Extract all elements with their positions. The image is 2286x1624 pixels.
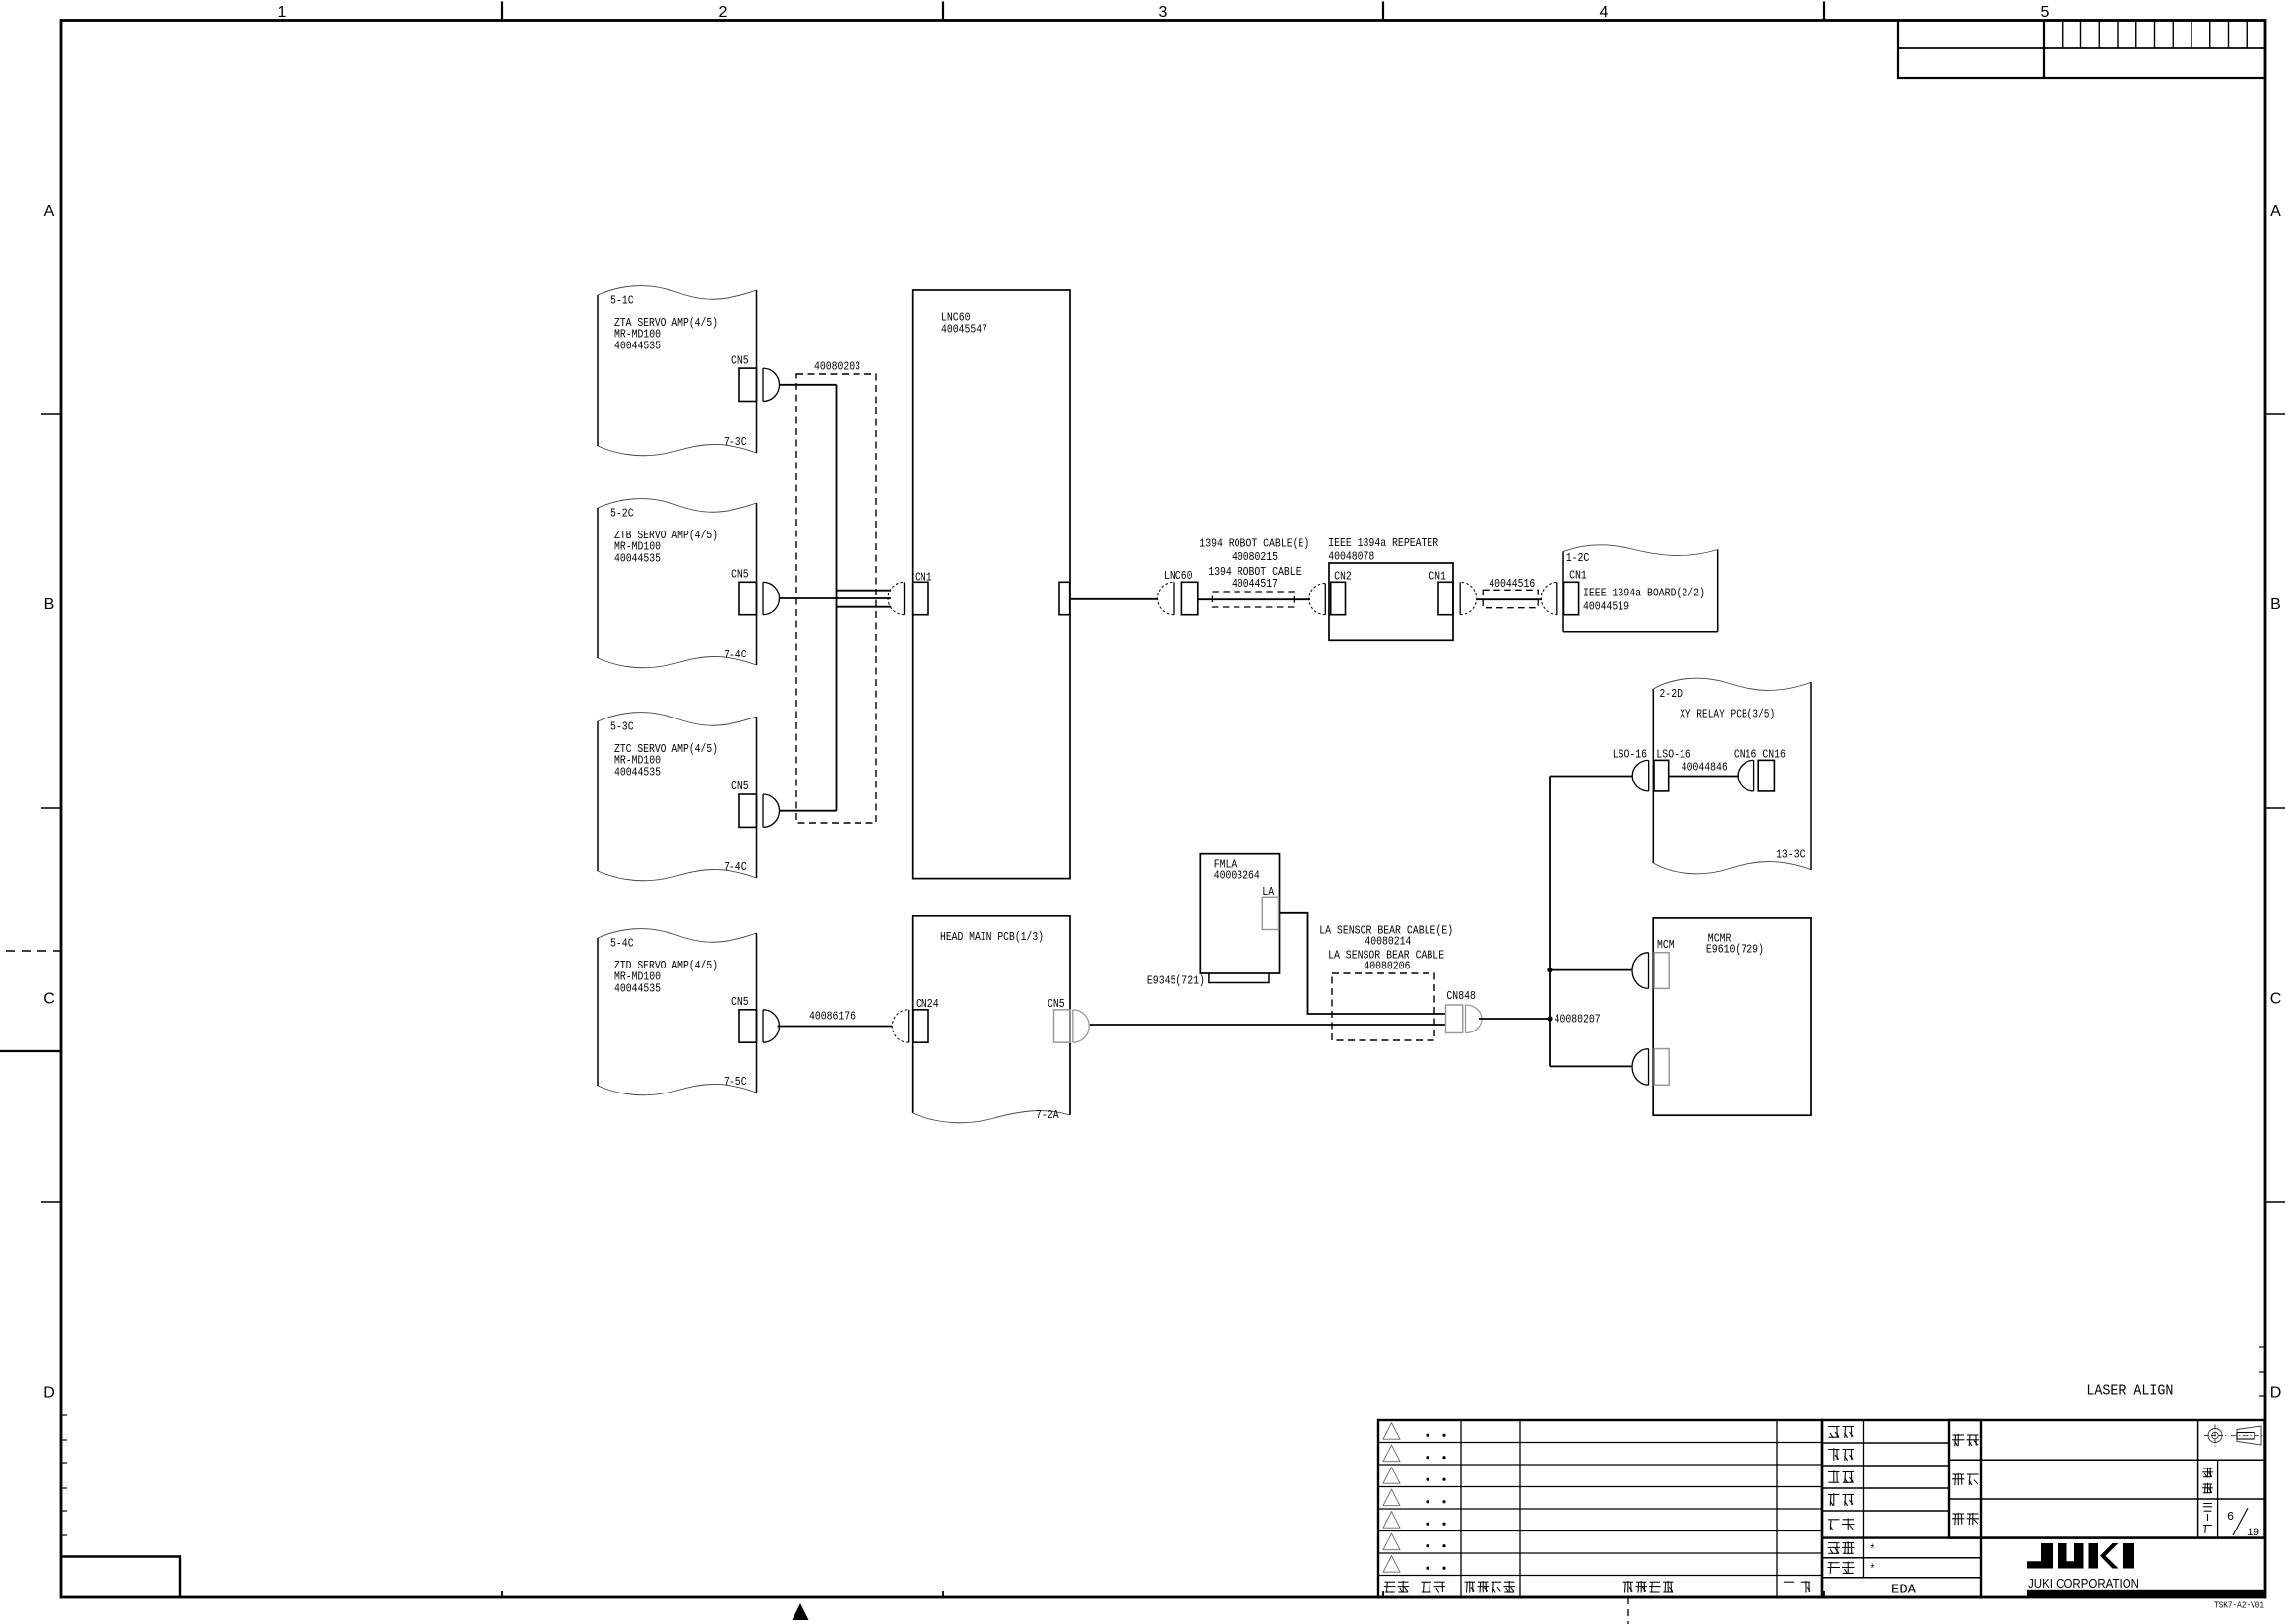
svg-text:CN16 CN16: CN16 CN16 — [1734, 747, 1786, 761]
bottom dashed centerline — [1627, 1597, 1629, 1624]
revision strip cell line 5 — [2135, 21, 2137, 49]
svg-text:40080215: 40080215 — [1232, 550, 1278, 564]
connector 40044516 socket — [1541, 582, 1557, 614]
approval row line 1 — [1822, 1442, 1949, 1444]
JUKI logo cell left edge — [1980, 1538, 1982, 1597]
approval row line 3 — [1822, 1487, 1949, 1489]
revision strip cell line 11 — [2246, 21, 2248, 49]
svg-text:7-4C: 7-4C — [724, 860, 747, 874]
junction dot upper — [1547, 968, 1552, 972]
svg-text:IEEE 1394a REPEATER: IEEE 1394a REPEATER — [1328, 536, 1438, 550]
wire LNC60 to cable plug — [1070, 598, 1158, 600]
svg-text:40003264: 40003264 — [1214, 869, 1260, 883]
IEEE 1394a repeater box — [1329, 563, 1453, 640]
svg-text:LSO-16: LSO-16 — [1613, 747, 1647, 761]
servo amp block 5-2C torn outline — [598, 499, 757, 513]
wire head CN5 to CN848 — [1090, 1024, 1446, 1026]
svg-text:CN5: CN5 — [731, 353, 749, 367]
approval label col divider — [1863, 1420, 1865, 1578]
svg-text:*: * — [1869, 1542, 1876, 1557]
svg-text:40044535: 40044535 — [614, 340, 661, 353]
zone tick right y821 — [2265, 807, 2285, 809]
wire LA sensor — [1280, 913, 1446, 1014]
svg-text:MCM: MCM — [1657, 938, 1675, 952]
revision strip cell line 10 — [2228, 21, 2230, 49]
svg-text:A: A — [44, 203, 55, 219]
connector CN1 rect (1394a board) — [1564, 582, 1579, 614]
connector 1394 cable socket at LNC60 — [1157, 582, 1174, 614]
label 保管 — [1828, 1541, 1855, 1554]
projection symbol cone — [2231, 1426, 2263, 1445]
revision row line 6 — [1378, 1552, 1822, 1554]
revision date dots row 1 — [1426, 1434, 1429, 1437]
cable 40080206 dashed box — [1332, 973, 1434, 1040]
svg-text:40080214: 40080214 — [1365, 934, 1411, 948]
part row line 1 — [1949, 1459, 2265, 1461]
svg-text:5-1C: 5-1C — [610, 294, 634, 308]
svg-text:7-3C: 7-3C — [724, 435, 747, 449]
header henkou-bangou — [1465, 1581, 1516, 1593]
connector CN5 plug (box 3) — [763, 794, 780, 827]
page slash — [2233, 1508, 2248, 1535]
svg-text:40080203: 40080203 — [814, 360, 860, 374]
svg-text:E9610(729): E9610(729) — [1706, 943, 1764, 957]
svg-text:40086176: 40086176 — [809, 1010, 856, 1024]
svg-text:4: 4 — [1600, 4, 1609, 21]
revision date dots row 2 — [1426, 1456, 1429, 1459]
revision strip outer — [1898, 21, 2265, 79]
approval row line 2 — [1822, 1465, 1949, 1467]
solid mark outside left frame — [0, 1050, 61, 1052]
wire 40044516 — [1477, 598, 1543, 600]
connector CN1 socket (LNC60) — [888, 582, 905, 614]
ruler tick right y1394 — [2259, 1371, 2265, 1373]
svg-text:40044519: 40044519 — [1583, 600, 1629, 614]
connector CN16 socket — [1738, 760, 1753, 791]
connector CN2 rect — [1331, 582, 1346, 614]
revision strip row divider — [1898, 47, 2265, 49]
label shakudo vertical — [2202, 1468, 2213, 1493]
cable 40044517 dashed box — [1212, 592, 1294, 607]
revision strip cell line 1 — [2062, 21, 2064, 49]
connector CN5 rect (box 2) — [739, 582, 757, 614]
label hin-ban — [1952, 1473, 1979, 1485]
wire 40086176 — [778, 1026, 892, 1028]
connector CN5 rect (head right, unused) — [1054, 1010, 1071, 1042]
connector CN5 plug (box 4) — [763, 1010, 779, 1042]
wire CN5-B to CN1 mid — [780, 597, 891, 599]
svg-text:CN2: CN2 — [1334, 569, 1352, 583]
wire bus to CN1 bottom — [837, 606, 892, 608]
column tick top 2 — [942, 2, 944, 21]
svg-text:40080206: 40080206 — [1364, 960, 1410, 973]
wire 40044846 — [1669, 776, 1739, 778]
connector robot cable socket at repeater — [1309, 584, 1326, 615]
LNC60 board box — [913, 290, 1070, 879]
HEAD MAIN PCB bottom torn edge — [913, 1111, 1070, 1123]
connector CN5 rect (box 1) — [739, 368, 757, 401]
svg-text:LSO-16: LSO-16 — [1656, 747, 1690, 761]
connector CN24 socket — [892, 1010, 908, 1042]
ruler tick left y1535 — [61, 1510, 67, 1512]
projection symbol circle — [2204, 1425, 2226, 1447]
svg-text:5-3C: 5-3C — [610, 720, 634, 734]
HEAD MAIN PCB box outline — [913, 916, 1070, 1115]
svg-text:CN5: CN5 — [731, 995, 749, 1009]
svg-text:40044535: 40044535 — [614, 552, 661, 566]
connector LSO-16 socket — [1632, 760, 1648, 791]
revision date dots row 4 — [1426, 1500, 1429, 1503]
svg-text:1-2C: 1-2C — [1566, 551, 1590, 565]
revision strip cell line 9 — [2209, 21, 2211, 49]
approval row line 4 — [1822, 1510, 1949, 1512]
revision strip cell line 8 — [2191, 21, 2192, 49]
servo amp block 5-1C torn outline — [598, 286, 757, 300]
wire CN5-C to bus — [780, 810, 837, 812]
ruler tick left y1438 — [61, 1414, 67, 1416]
wire bus to MCM upper — [1550, 969, 1632, 971]
revision col divider 3 — [1776, 1420, 1778, 1597]
connector cable plug after repeater — [1460, 582, 1477, 614]
revision triangle row 1 — [1383, 1423, 1400, 1440]
JUKI black bar — [2027, 1590, 2265, 1597]
revision date dots row 7 — [1426, 1567, 1429, 1570]
ruler tick left y1560 — [61, 1534, 67, 1536]
revision triangle row 6 — [1383, 1533, 1400, 1550]
wire right bus vertical — [1549, 777, 1551, 1067]
svg-text:EDA: EDA — [1891, 1583, 1917, 1596]
svg-text:5: 5 — [2041, 4, 2050, 21]
ruler tick right y1369 — [2259, 1346, 2265, 1348]
approval value col edge — [1948, 1420, 1950, 1538]
svg-text:CN848: CN848 — [1446, 989, 1476, 1003]
scale col divider — [2197, 1420, 2199, 1538]
connector CN5 rect (box 3) — [739, 794, 757, 827]
wire bus to LSO-16 — [1550, 776, 1632, 778]
svg-text:TSK7-A2-V01: TSK7-A2-V01 — [2214, 1600, 2264, 1611]
part row line 2 — [1949, 1498, 2265, 1500]
connector LSO-16 rect — [1654, 760, 1669, 791]
svg-text:CN24: CN24 — [916, 997, 939, 1011]
ruler tick right y1418 — [2259, 1395, 2265, 1397]
svg-text:40044516: 40044516 — [1489, 577, 1535, 591]
ruler tick left y1463 — [61, 1439, 67, 1441]
svg-text:6: 6 — [2227, 1510, 2234, 1524]
wire bus to MCM lower — [1550, 1065, 1632, 1067]
column tick top 3 — [1382, 2, 1384, 21]
scale value divider — [2217, 1460, 2219, 1537]
cable 40080203 dashed box — [796, 374, 876, 823]
bottom-left reference box — [61, 1557, 180, 1598]
JUKI logo — [2027, 1543, 2134, 1569]
svg-text:*: * — [1869, 1562, 1876, 1577]
revision strip cell line 6 — [2154, 21, 2156, 49]
revision triangle row 2 — [1383, 1445, 1400, 1462]
column tick bottom 4 — [1823, 1591, 1825, 1596]
connector CN5 plug (box 1) — [763, 368, 780, 401]
revision date dots row 3 — [1426, 1478, 1429, 1481]
XY RELAY PCB torn box — [1653, 678, 1811, 874]
column tick top 4 — [1823, 2, 1825, 21]
svg-text:LNC60: LNC60 — [1164, 569, 1193, 583]
svg-text:3: 3 — [1159, 4, 1168, 21]
revision triangle row 7 — [1383, 1556, 1400, 1573]
connector MCM socket lower — [1632, 1049, 1648, 1086]
approval row line 5 — [1822, 1537, 1981, 1539]
revision row line 4 — [1378, 1508, 1822, 1510]
connector CN848 rect (unused) — [1446, 1005, 1463, 1033]
svg-text:CN5: CN5 — [731, 780, 749, 793]
revision col divider 1 — [1460, 1420, 1462, 1597]
svg-text:CN5: CN5 — [731, 568, 749, 582]
column tick bottom 1 — [501, 1591, 503, 1596]
revision date dots row 6 — [1426, 1544, 1429, 1547]
svg-text:7-2A: 7-2A — [1036, 1108, 1059, 1122]
title block revision table outer — [1378, 1420, 1822, 1597]
svg-text:CN5: CN5 — [1048, 997, 1065, 1011]
svg-text:40048078: 40048078 — [1328, 550, 1374, 564]
connector MCM rect upper (unused) — [1654, 953, 1669, 989]
svg-text:D: D — [43, 1385, 55, 1402]
wire CN848 to bus — [1479, 1018, 1550, 1020]
header kigou — [1384, 1581, 1409, 1593]
wire robot cable — [1198, 598, 1310, 600]
zone tick left y821 — [41, 807, 61, 809]
junction dot 40080207 — [1547, 1016, 1552, 1021]
part label col edge — [1980, 1420, 1982, 1597]
wire bus to CN1 top — [837, 590, 892, 592]
svg-text:40044517: 40044517 — [1232, 577, 1278, 591]
revision col divider 2 — [1519, 1420, 1521, 1597]
svg-text:40045547: 40045547 — [941, 323, 987, 337]
revision date dots row 5 — [1426, 1523, 1429, 1526]
dashed mark outside left frame — [6, 950, 61, 952]
revision strip column divider — [2043, 21, 2045, 79]
connector CN5 plug (head right, unused) — [1073, 1010, 1089, 1042]
header hizuke — [1422, 1582, 1446, 1592]
svg-text:JUKI CORPORATION: JUKI CORPORATION — [2028, 1576, 2139, 1591]
connector CN5 plug (box 2) — [763, 582, 780, 614]
svg-text:C: C — [43, 991, 55, 1008]
svg-text:XY RELAY PCB(3/5): XY RELAY PCB(3/5) — [1680, 708, 1775, 721]
revision row line 1 — [1378, 1442, 1822, 1444]
wire CN5-A to bus — [780, 384, 837, 386]
bottom fold triangle — [793, 1603, 809, 1620]
label 作成 — [1828, 1519, 1855, 1531]
connector LA rect (unused) — [1262, 897, 1278, 929]
svg-text:40044846: 40044846 — [1682, 760, 1728, 774]
column tick bottom 3 — [1382, 1591, 1384, 1596]
FMLA box — [1200, 854, 1279, 973]
zone tick left y421 — [41, 413, 61, 415]
connector CN24 rect — [913, 1010, 928, 1042]
revision row line 7 — [1378, 1575, 1822, 1577]
zone tick left y1221 — [41, 1201, 61, 1203]
wire bus vertical — [836, 385, 838, 811]
revision triangle row 3 — [1383, 1468, 1400, 1484]
ruler tick left y1486 — [61, 1462, 67, 1464]
revision strip cell line 4 — [2117, 21, 2119, 49]
ruler tick left y1512 — [61, 1487, 67, 1489]
label hin-mei — [1952, 1513, 1979, 1525]
revision triangle row 4 — [1383, 1489, 1400, 1506]
label 承認 — [1828, 1427, 1854, 1438]
revision triangle row 5 — [1383, 1512, 1400, 1529]
svg-text:IEEE 1394a BOARD(2/2): IEEE 1394a BOARD(2/2) — [1583, 587, 1705, 600]
label 製図 — [1828, 1493, 1854, 1506]
revision strip cell line 2 — [2080, 21, 2082, 49]
connector CN5 rect (box 4) — [739, 1010, 757, 1042]
svg-text:D: D — [2270, 1385, 2282, 1402]
servo amp block 5-4C torn outline — [598, 929, 757, 943]
svg-text:LASER ALIGN: LASER ALIGN — [2086, 1382, 2173, 1399]
svg-text:1394 ROBOT CABLE(E): 1394 ROBOT CABLE(E) — [1199, 537, 1309, 551]
svg-text:7-4C: 7-4C — [724, 648, 747, 661]
svg-text:CN1: CN1 — [1569, 568, 1587, 582]
svg-text:2: 2 — [719, 4, 728, 21]
revision row line 2 — [1378, 1464, 1822, 1466]
zone tick right y1221 — [2265, 1201, 2285, 1203]
connector CN1 rect (LNC60) — [913, 582, 928, 614]
cable 40044516 dashed box — [1483, 590, 1538, 607]
FMLA pedestal — [1209, 973, 1269, 983]
zone tick right y421 — [2265, 413, 2285, 415]
revision strip cell line 7 — [2172, 21, 2174, 49]
revision row line 5 — [1378, 1530, 1822, 1532]
approval row line 6 — [1822, 1557, 1981, 1559]
MCMR box — [1653, 918, 1811, 1115]
label page vertical — [2203, 1504, 2212, 1533]
svg-text:HEAD MAIN PCB(1/3): HEAD MAIN PCB(1/3) — [940, 930, 1044, 944]
column tick top 1 — [501, 2, 503, 21]
svg-text:2-2D: 2-2D — [1659, 687, 1683, 701]
connector LNC60 cable rect — [1181, 582, 1197, 614]
column tick bottom 2 — [942, 1591, 944, 1596]
approval EDA row line — [1822, 1577, 1981, 1579]
label kata-shiki — [1952, 1434, 1979, 1446]
header henkou-kiji — [1623, 1581, 1674, 1593]
svg-text:A: A — [2270, 203, 2281, 219]
revision row line 3 — [1378, 1486, 1822, 1488]
revision strip cell line 3 — [2098, 21, 2100, 49]
svg-text:7-5C: 7-5C — [724, 1075, 747, 1089]
svg-text:40080207: 40080207 — [1555, 1013, 1601, 1027]
part table outer — [1949, 1420, 2265, 1538]
svg-text:5-2C: 5-2C — [610, 507, 634, 521]
connector CN1 rect (repeater) — [1438, 582, 1453, 614]
svg-text:1: 1 — [278, 4, 286, 21]
label 検図 — [1828, 1448, 1854, 1461]
connector CN16 rect — [1758, 760, 1774, 791]
svg-text:B: B — [44, 596, 55, 613]
connector CN848 plug (unused) — [1466, 1005, 1483, 1033]
IEEE 1394a board torn box — [1563, 545, 1718, 632]
header tantou — [1784, 1581, 1810, 1593]
svg-text:E9345(721): E9345(721) — [1147, 973, 1205, 987]
approval row line 7 — [1822, 1577, 1981, 1579]
svg-text:40044535: 40044535 — [614, 982, 661, 996]
label 類似 — [1828, 1562, 1855, 1575]
servo amp block 5-3C torn outline — [598, 713, 757, 726]
svg-text:C: C — [2270, 991, 2282, 1008]
svg-text:B: B — [2270, 596, 2281, 613]
approval table outer — [1822, 1420, 1981, 1597]
connector MCM rect lower (unused) — [1654, 1049, 1669, 1086]
svg-text:CN1: CN1 — [1429, 569, 1446, 583]
connector LNC60 right rect — [1059, 582, 1070, 614]
svg-text:40044535: 40044535 — [614, 766, 661, 780]
svg-text:13-3C: 13-3C — [1776, 848, 1806, 862]
title block thick separator — [1822, 1536, 2265, 1538]
label 設計 — [1828, 1470, 1854, 1483]
connector MCM socket upper — [1632, 953, 1649, 989]
svg-text:5-4C: 5-4C — [610, 937, 634, 951]
